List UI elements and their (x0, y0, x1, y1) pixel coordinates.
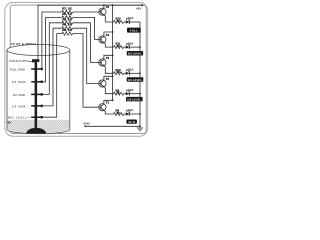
probe MIN LEVEL (31, 116, 43, 118)
wire probe1 to R7 (42, 12, 62, 68)
LED LED2 (124, 88, 134, 96)
wire LED1 cathode (129, 113, 141, 115)
wire T4 collector (104, 31, 114, 36)
wire T3 emitter (104, 66, 114, 74)
wire T5 collector (103, 4, 105, 8)
svg-text:1/4 LEVEL: 1/4 LEVEL (127, 98, 142, 102)
tank (7, 45, 70, 134)
+9V rail top (38, 4, 143, 10)
svg-text:LED1: LED1 (126, 108, 134, 112)
resistor R11 (114, 42, 124, 49)
svg-text:R5, 1K: R5, 1K (62, 17, 72, 21)
probe FULL TANK (31, 68, 43, 70)
resistor R9 (114, 88, 124, 95)
svg-text:LED3: LED3 (126, 68, 134, 72)
svg-text:+9V: +9V (136, 6, 141, 10)
wire probe4 to R4 (43, 28, 62, 106)
probe 1/2 TANK (31, 93, 43, 95)
resistor R7 (62, 7, 73, 14)
indicator box MIN (126, 120, 136, 124)
transistor T5 (99, 5, 110, 16)
svg-text:3/4 TANK: 3/4 TANK (12, 80, 26, 84)
wire probe5 to R3 (43, 34, 62, 118)
probe 1/4 TANK (31, 105, 43, 107)
svg-text:LED4: LED4 (126, 41, 134, 45)
wire T1 collector (104, 99, 114, 104)
resistor R3 (62, 28, 73, 35)
svg-text:T5: T5 (106, 5, 110, 9)
transistor T4 (99, 33, 110, 44)
indicator box 3/4 LEVEL (127, 51, 143, 56)
resistor R5 (62, 17, 73, 24)
svg-text:R4, 1K: R4, 1K (62, 23, 72, 27)
wire probe3 to R5 (43, 23, 62, 95)
label 3/4 TANK (12, 80, 26, 84)
wire T1 emitter (104, 110, 114, 114)
svg-text:+9V: +9V (6, 121, 11, 125)
label MIN. LEVEL (8, 116, 34, 120)
label INSULATOR (9, 59, 34, 63)
label TO R7 & BC547 (11, 42, 37, 46)
svg-text:MIN: MIN (128, 120, 135, 124)
wire probe2 to R6 (43, 17, 62, 81)
wire R5 to T3 base (73, 23, 99, 63)
svg-text:LED5: LED5 (126, 16, 134, 20)
resistor R6 (62, 12, 73, 19)
wire LED5 cathode (129, 21, 140, 23)
svg-text:TO R7 & BC547: TO R7 & BC547 (11, 42, 37, 46)
label 1/4 TANK (12, 104, 26, 108)
svg-text:FULL TANK: FULL TANK (10, 67, 25, 71)
wire LED3 cathode (129, 72, 141, 74)
label FULL TANK (10, 67, 25, 71)
svg-text:LED2: LED2 (126, 88, 134, 92)
wire T4 emitter (104, 43, 114, 48)
svg-text:INSULATOR: INSULATOR (9, 59, 27, 63)
svg-text:R6, 1K: R6, 1K (62, 12, 72, 16)
svg-text:1/2 TANK: 1/2 TANK (13, 93, 26, 97)
ground GND line (83, 121, 141, 127)
wire R3 to T1 base (73, 34, 99, 108)
ground arrow (137, 126, 143, 131)
indicator box 1/4 LEVEL (126, 97, 143, 102)
+9V vertical rail (112, 4, 114, 100)
wire R7 to T5 base (73, 11, 99, 13)
resistor R12 (114, 17, 124, 24)
LED LED3 (124, 68, 134, 76)
svg-text:MIN. LEVEL: MIN. LEVEL (8, 116, 27, 120)
transistor T1 (99, 101, 110, 112)
resistor R10 (114, 68, 124, 75)
LED LED1 (124, 108, 134, 116)
probe 3/4 TANK (31, 81, 43, 83)
transistor T3 (99, 56, 110, 67)
wire R4 to T2 base (73, 28, 99, 83)
label 1/2 TANK (13, 93, 26, 97)
resistor R8 (114, 109, 124, 116)
wire T5 emitter (104, 15, 114, 22)
svg-text:R3, 1K: R3, 1K (62, 28, 72, 32)
svg-text:T2: T2 (106, 77, 110, 81)
indicator box 1/2 LEVEL (127, 77, 144, 82)
wire T2 collector (104, 75, 114, 80)
svg-text:GND: GND (83, 121, 89, 125)
svg-text:T4: T4 (106, 33, 110, 37)
LED LED5 (124, 16, 134, 24)
resistor R4 (62, 23, 73, 30)
transistor T2 (99, 77, 110, 88)
svg-text:T3: T3 (106, 56, 110, 60)
sensor rod (26, 59, 46, 133)
wire T3 collector (104, 54, 114, 59)
svg-text:R7, 1K: R7, 1K (62, 7, 72, 11)
svg-text:T1: T1 (106, 101, 110, 105)
wire T2 emitter (104, 87, 114, 94)
wire LED4 cathode (129, 46, 141, 48)
LED LED4 (124, 41, 134, 49)
svg-text:FULL: FULL (130, 28, 138, 32)
svg-text:1/4 TANK: 1/4 TANK (12, 104, 26, 108)
wire R6 to T4 base (73, 17, 99, 39)
water hatch (8, 120, 70, 133)
wire LED cathode rail (139, 22, 141, 126)
label +9V tank (6, 121, 11, 125)
indicator box FULL (127, 28, 141, 33)
wire LED2 cathode (129, 93, 141, 95)
wire +9V rail to rod (37, 5, 39, 59)
